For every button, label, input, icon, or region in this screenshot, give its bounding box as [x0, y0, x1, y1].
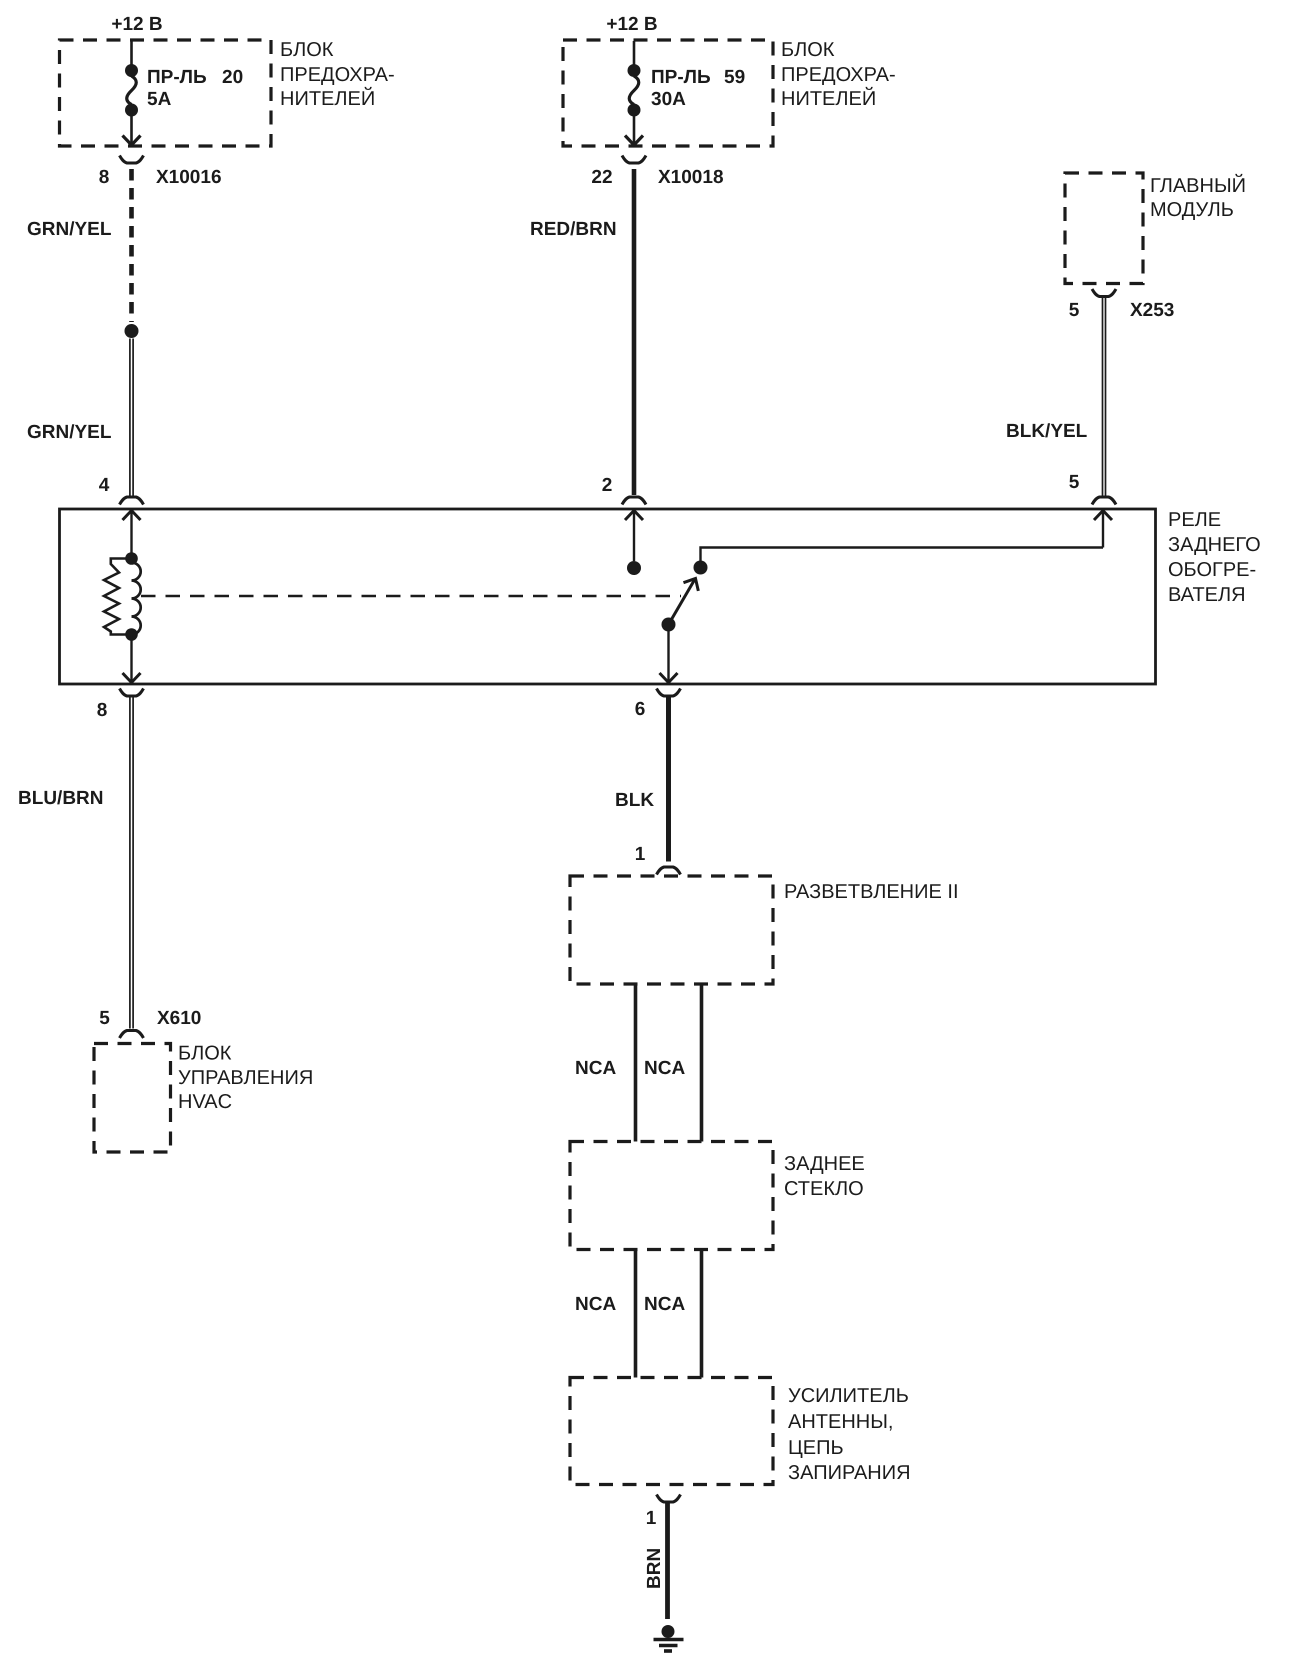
pin 4 connector at relay	[99, 475, 144, 505]
svg-text:GRN/YEL: GRN/YEL	[27, 422, 112, 443]
svg-text:X253: X253	[1130, 300, 1174, 321]
svg-text:5: 5	[1069, 472, 1080, 493]
svg-text:GRN/YEL: GRN/YEL	[27, 219, 112, 240]
wire BLK/YEL (double)	[1103, 298, 1106, 496]
svg-text:ЦЕПЬ: ЦЕПЬ	[788, 1437, 844, 1459]
svg-text:ПР-ЛЬ: ПР-ЛЬ	[651, 67, 711, 88]
svg-text:ПРЕДОХРА-: ПРЕДОХРА-	[781, 64, 896, 86]
svg-text:NCA: NCA	[575, 1058, 616, 1079]
connector X253	[1069, 289, 1175, 321]
svg-text:HVAC: HVAC	[178, 1091, 232, 1113]
connector X10018	[591, 156, 723, 189]
ground G1	[654, 1625, 684, 1651]
svg-text:БЛОК: БЛОК	[178, 1043, 232, 1065]
main module box (ГЛАВНЫЙ МОДУЛЬ)	[1065, 173, 1246, 284]
wire BRN	[665, 1503, 670, 1619]
wire NCA left (lower)	[634, 1250, 638, 1378]
svg-text:ЗАДНЕГО: ЗАДНЕГО	[1168, 534, 1261, 556]
svg-text:СТЕКЛО: СТЕКЛО	[784, 1178, 864, 1200]
svg-text:2: 2	[602, 475, 613, 496]
wire RED/BRN	[632, 169, 637, 495]
wire BLK	[666, 697, 671, 862]
wire fuse 2 to box edge with arrow	[625, 110, 643, 145]
svg-text:1: 1	[646, 1508, 657, 1529]
fuse block 2 box (БЛОК ПРЕДОХРАНИТЕЛЕЙ)	[563, 39, 896, 146]
junction box (РАЗВЕТВЛЕНИЕ II)	[570, 876, 959, 984]
svg-text:ЗАПИРАНИЯ: ЗАПИРАНИЯ	[788, 1462, 911, 1484]
pin 1 connector below amplifier	[646, 1495, 681, 1530]
pin 2 connector at relay	[602, 475, 646, 505]
svg-text:8: 8	[97, 700, 108, 721]
svg-text:BRN: BRN	[644, 1548, 665, 1589]
dashed linkage line	[141, 595, 681, 597]
svg-text:ВАТЕЛЯ: ВАТЕЛЯ	[1168, 584, 1246, 606]
svg-text:6: 6	[635, 699, 646, 720]
svg-text:ЗАДНЕЕ: ЗАДНЕЕ	[784, 1153, 865, 1175]
coil to pin 8 wire with arrow	[123, 635, 141, 683]
svg-text:BLK/YEL: BLK/YEL	[1006, 421, 1088, 442]
svg-text:НИТЕЛЕЙ: НИТЕЛЕЙ	[781, 86, 876, 110]
svg-text:8: 8	[99, 167, 110, 188]
HVAC control box (БЛОК УПРАВЛЕНИЯ HVAC)	[94, 1043, 313, 1153]
antenna amplifier box (УСИЛИТЕЛЬ АНТЕННЫ, ЦЕПЬ ЗАПИРАНИЯ)	[570, 1378, 911, 1485]
pin 4 internal arrow	[123, 511, 141, 555]
relay box (РЕЛЕ ЗАДНЕГО ОБОГРЕВАТЕЛЯ)	[60, 509, 1261, 684]
svg-text:УПРАВЛЕНИЯ: УПРАВЛЕНИЯ	[178, 1067, 313, 1089]
wire NCA right (lower)	[700, 1250, 704, 1378]
svg-text:5: 5	[1069, 300, 1080, 321]
svg-text:X610: X610	[157, 1008, 201, 1029]
svg-text:РАЗВЕТВЛЕНИЕ II: РАЗВЕТВЛЕНИЕ II	[784, 881, 959, 903]
svg-text:X10016: X10016	[156, 167, 222, 188]
svg-text:59: 59	[724, 67, 745, 88]
svg-text:МОДУЛЬ: МОДУЛЬ	[1150, 199, 1234, 221]
svg-text:20: 20	[222, 67, 243, 88]
svg-text:+12 В: +12 В	[606, 14, 657, 35]
switch contact and wire to pin 5	[694, 511, 1113, 575]
svg-text:УСИЛИТЕЛЬ: УСИЛИТЕЛЬ	[788, 1385, 909, 1407]
pin 6 connector below relay	[635, 689, 681, 721]
junction dot	[125, 324, 139, 338]
wire from +12V into fuse	[130, 41, 133, 66]
fuse block 1 box (БЛОК ПРЕДОХРАНИТЕЛЕЙ)	[60, 39, 395, 146]
fuse ПР-ЛЬ 20 5A	[125, 64, 243, 117]
svg-text:НИТЕЛЕЙ: НИТЕЛЕЙ	[280, 86, 375, 110]
pin 1 connector at junction II	[635, 844, 681, 875]
svg-text:NCA: NCA	[644, 1058, 685, 1079]
svg-text:5А: 5А	[147, 89, 172, 110]
switch arm	[662, 574, 703, 631]
svg-text:BLK: BLK	[615, 790, 654, 811]
wire GRN/YEL (solid double)	[130, 339, 133, 496]
svg-text:+12 В: +12 В	[111, 14, 162, 35]
svg-text:RED/BRN: RED/BRN	[530, 219, 617, 240]
svg-text:1: 1	[635, 844, 646, 865]
svg-text:22: 22	[591, 167, 612, 188]
switch to pin 6 wire with arrow	[660, 630, 678, 683]
svg-text:БЛОК: БЛОК	[280, 39, 334, 61]
svg-text:X10018: X10018	[658, 167, 724, 188]
svg-text:ОБОГРЕ-: ОБОГРЕ-	[1168, 559, 1256, 581]
fuse ПР-ЛЬ 59 30A	[628, 64, 746, 117]
wire from +12V into fuse 2	[633, 41, 636, 66]
wire fuse to box edge with arrow	[123, 110, 141, 145]
svg-text:NCA: NCA	[575, 1294, 616, 1315]
rear window box (ЗАДНЕЕ СТЕКЛО)	[570, 1142, 865, 1250]
wire GRN/YEL (dashed)	[129, 169, 134, 322]
svg-text:30А: 30А	[651, 89, 686, 110]
connector X610	[99, 1008, 201, 1038]
svg-text:ПР-ЛЬ: ПР-ЛЬ	[147, 67, 207, 88]
svg-text:NCA: NCA	[644, 1294, 685, 1315]
svg-text:BLU/BRN: BLU/BRN	[18, 788, 104, 809]
svg-text:4: 4	[99, 475, 110, 496]
pin 8 connector below relay	[97, 689, 144, 722]
wire NCA left (upper)	[634, 985, 638, 1142]
connector X10016	[99, 156, 222, 189]
wire BLU/BRN (double)	[130, 697, 133, 1029]
svg-text:ПРЕДОХРА-: ПРЕДОХРА-	[280, 64, 395, 86]
svg-text:БЛОК: БЛОК	[781, 39, 835, 61]
pin 5 connector at relay	[1069, 472, 1116, 505]
svg-text:5: 5	[99, 1008, 110, 1029]
relay coil K1	[104, 552, 141, 641]
wire NCA right (upper)	[700, 985, 704, 1142]
svg-text:РЕЛЕ: РЕЛЕ	[1168, 509, 1221, 531]
pin 2 internal arrow and contact	[625, 511, 643, 576]
svg-text:АНТЕННЫ,: АНТЕННЫ,	[788, 1411, 894, 1433]
svg-text:ГЛАВНЫЙ: ГЛАВНЫЙ	[1150, 173, 1246, 197]
